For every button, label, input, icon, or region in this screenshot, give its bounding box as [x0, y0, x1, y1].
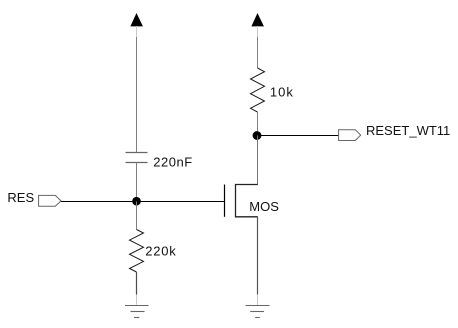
svg-text:220nF: 220nF: [153, 155, 193, 170]
svg-text:220k: 220k: [145, 244, 176, 259]
svg-text:RESET_WT11: RESET_WT11: [366, 123, 450, 138]
svg-text:10k: 10k: [270, 84, 294, 99]
svg-text:MOS: MOS: [249, 199, 279, 214]
svg-text:RES: RES: [7, 190, 34, 205]
